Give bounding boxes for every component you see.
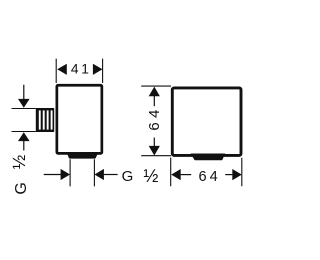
svg-text:½: ½ (9, 154, 29, 169)
svg-text:½: ½ (143, 166, 158, 186)
svg-text:64: 64 (146, 106, 163, 131)
svg-text:G: G (122, 168, 134, 185)
svg-text:64: 64 (198, 169, 220, 185)
svg-text:G: G (13, 182, 30, 194)
svg-text:41: 41 (71, 62, 92, 77)
